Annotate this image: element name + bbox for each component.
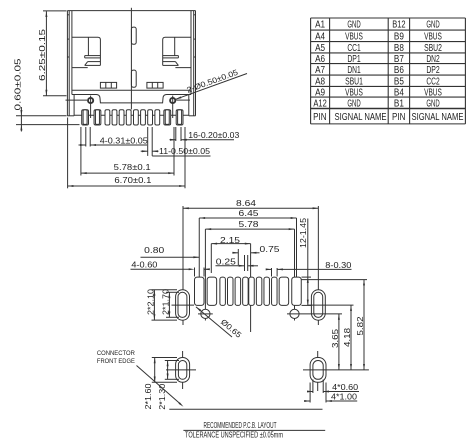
left mounting hole — [66, 96, 94, 118]
right latch window — [163, 37, 192, 67]
svg-text:DN1: DN1 — [347, 65, 361, 76]
svg-text:DN2: DN2 — [426, 54, 439, 65]
dim 5.78±0.1 — [81, 127, 174, 176]
svg-text:6.45: 6.45 — [239, 209, 260, 218]
svg-text:4-0.31±0.05: 4-0.31±0.05 — [100, 137, 149, 146]
dim 4*1.00 bottom right — [304, 383, 358, 403]
dim 4-0.31±0.05 — [79, 127, 149, 147]
svg-text:8-0.30: 8-0.30 — [325, 261, 352, 270]
svg-text:PIN: PIN — [392, 112, 405, 123]
svg-text:0.60±0.05: 0.60±0.05 — [14, 58, 23, 111]
dim 4.18 pcb right — [343, 305, 352, 370]
svg-text:A8: A8 — [315, 76, 325, 87]
svg-text:GND: GND — [347, 20, 360, 31]
dim 2-Ø0.50±0.05 hole callout — [176, 68, 247, 100]
svg-text:8.64: 8.64 — [236, 199, 257, 208]
left shell slot pad — [172, 206, 195, 325]
svg-text:GND: GND — [347, 98, 360, 109]
via diameter callout Ø0.65 — [196, 307, 244, 340]
svg-text:16-0.20±0.03: 16-0.20±0.03 — [188, 131, 240, 140]
solder tail baseline — [74, 114, 189, 116]
svg-text:4*0.60: 4*0.60 — [332, 383, 359, 392]
svg-text:B4: B4 — [394, 87, 404, 98]
svg-text:A5: A5 — [315, 43, 325, 54]
svg-text:A7: A7 — [315, 65, 325, 76]
dim 0.25 pcb — [216, 255, 259, 271]
svg-text:B9: B9 — [394, 31, 404, 42]
svg-text:CC1: CC1 — [347, 43, 361, 54]
pcb layout solder pads row — [195, 218, 302, 332]
dim 2*1.70 shell slot inner — [161, 288, 179, 317]
svg-text:5.78±0.1: 5.78±0.1 — [114, 163, 151, 172]
svg-text:A6: A6 — [315, 54, 325, 65]
svg-text:4.18: 4.18 — [343, 327, 352, 347]
dim 5.82 pcb right — [301, 280, 367, 370]
svg-text:3.65: 3.65 — [331, 328, 340, 348]
svg-text:VBUS: VBUS — [345, 87, 363, 98]
svg-text:SIGNAL NAME: SIGNAL NAME — [335, 112, 387, 123]
svg-text:6.70±0.1: 6.70±0.1 — [114, 176, 151, 185]
dim 6.70±0.1 — [68, 118, 185, 189]
svg-text:5.78: 5.78 — [239, 220, 260, 229]
svg-text:DP2: DP2 — [426, 65, 439, 76]
svg-text:VBUS: VBUS — [345, 31, 363, 42]
right shell slot pad — [308, 206, 354, 325]
dim 5.78 pcb — [205, 220, 294, 230]
right vent holes — [147, 82, 163, 88]
svg-text:B8: B8 — [394, 43, 404, 54]
svg-text:B1: B1 — [394, 98, 404, 109]
svg-text:TOLERANCE UNSPECIFIED ±0.05mm: TOLERANCE UNSPECIFIED ±0.05mm — [185, 431, 283, 440]
dim 0.60±0.05 left — [14, 58, 80, 132]
left vent holes — [100, 82, 116, 88]
svg-text:2*1.60: 2*1.60 — [144, 383, 153, 410]
dim 4-0.60 pcb — [131, 260, 210, 276]
right mounting hole — [170, 96, 190, 118]
svg-text:FRONT EDGE: FRONT EDGE — [97, 358, 135, 365]
svg-text:CC2: CC2 — [426, 76, 439, 87]
connector front edge label — [97, 350, 184, 407]
dim 2.15 pcb — [211, 236, 250, 273]
title text recommended pcb layout — [183, 421, 325, 440]
pin row of connector — [82, 110, 183, 125]
dim 2*1.60 bottom left — [144, 358, 177, 410]
dim 6.45 pcb — [199, 209, 296, 219]
svg-text:A4: A4 — [315, 31, 325, 42]
svg-text:SBU2: SBU2 — [424, 43, 442, 54]
svg-text:4*1.00: 4*1.00 — [331, 393, 358, 402]
svg-text:4-0.60: 4-0.60 — [131, 260, 158, 269]
dim 2*1.30 bottom left — [158, 361, 179, 410]
svg-text:2*2.10: 2*2.10 — [146, 288, 155, 315]
dim 11-0.50±0.05 — [141, 127, 211, 156]
svg-text:2.15: 2.15 — [220, 236, 241, 245]
dim 16-0.20±0.03 — [170, 127, 240, 141]
svg-text:2*1.70: 2*1.70 — [161, 288, 170, 315]
left via hole — [198, 309, 213, 318]
bottom left mounting pad — [166, 351, 196, 389]
svg-text:0.25: 0.25 — [216, 258, 237, 267]
svg-text:RECOMMENDED P.C.B. LAYOUT: RECOMMENDED P.C.B. LAYOUT — [204, 421, 277, 430]
svg-text:VBUS: VBUS — [424, 31, 442, 42]
svg-text:A1: A1 — [315, 20, 325, 31]
center seam line — [131, 8, 136, 110]
left latch window — [72, 37, 101, 67]
dim 8-0.30 pcb — [266, 261, 352, 277]
pin assignment table — [311, 18, 466, 124]
svg-text:6.25±0.15: 6.25±0.15 — [38, 28, 47, 81]
bottom right mounting pad — [303, 351, 369, 391]
svg-text:CONNECTOR: CONNECTOR — [97, 350, 135, 357]
dim 3.65 pcb right — [331, 314, 340, 370]
svg-text:12-1.45: 12-1.45 — [299, 217, 308, 248]
svg-text:2*1.30: 2*1.30 — [158, 383, 167, 410]
svg-text:0.80: 0.80 — [144, 246, 165, 255]
svg-text:5.82: 5.82 — [356, 317, 365, 336]
svg-text:DP1: DP1 — [347, 54, 361, 65]
svg-text:B12: B12 — [392, 20, 405, 31]
svg-text:B7: B7 — [394, 54, 404, 65]
dim 2*2.10 shell slot outer — [146, 288, 177, 320]
svg-text:SIGNAL NAME: SIGNAL NAME — [412, 112, 464, 123]
svg-text:SBU1: SBU1 — [345, 76, 363, 87]
svg-text:VBUS: VBUS — [424, 87, 442, 98]
svg-text:B6: B6 — [394, 65, 404, 76]
dim 0.75 pcb — [232, 245, 280, 265]
dim 12-1.45 pcb — [299, 217, 311, 305]
svg-text:A12: A12 — [313, 98, 326, 109]
connector front edge line — [169, 408, 322, 410]
svg-text:PIN: PIN — [313, 112, 326, 123]
dim 4*0.60 bottom right — [307, 380, 359, 394]
right via hole — [287, 309, 342, 318]
dim 0.80 pcb — [141, 246, 200, 258]
connector top view body outline — [67, 11, 195, 116]
dim 8.64 pcb — [183, 199, 318, 209]
svg-text:B5: B5 — [394, 76, 404, 87]
svg-text:GND: GND — [426, 98, 439, 109]
svg-text:A9: A9 — [315, 87, 325, 98]
dim 6.25±0.15 left — [38, 11, 67, 96]
svg-text:0.75: 0.75 — [260, 245, 281, 254]
svg-text:GND: GND — [426, 20, 439, 31]
